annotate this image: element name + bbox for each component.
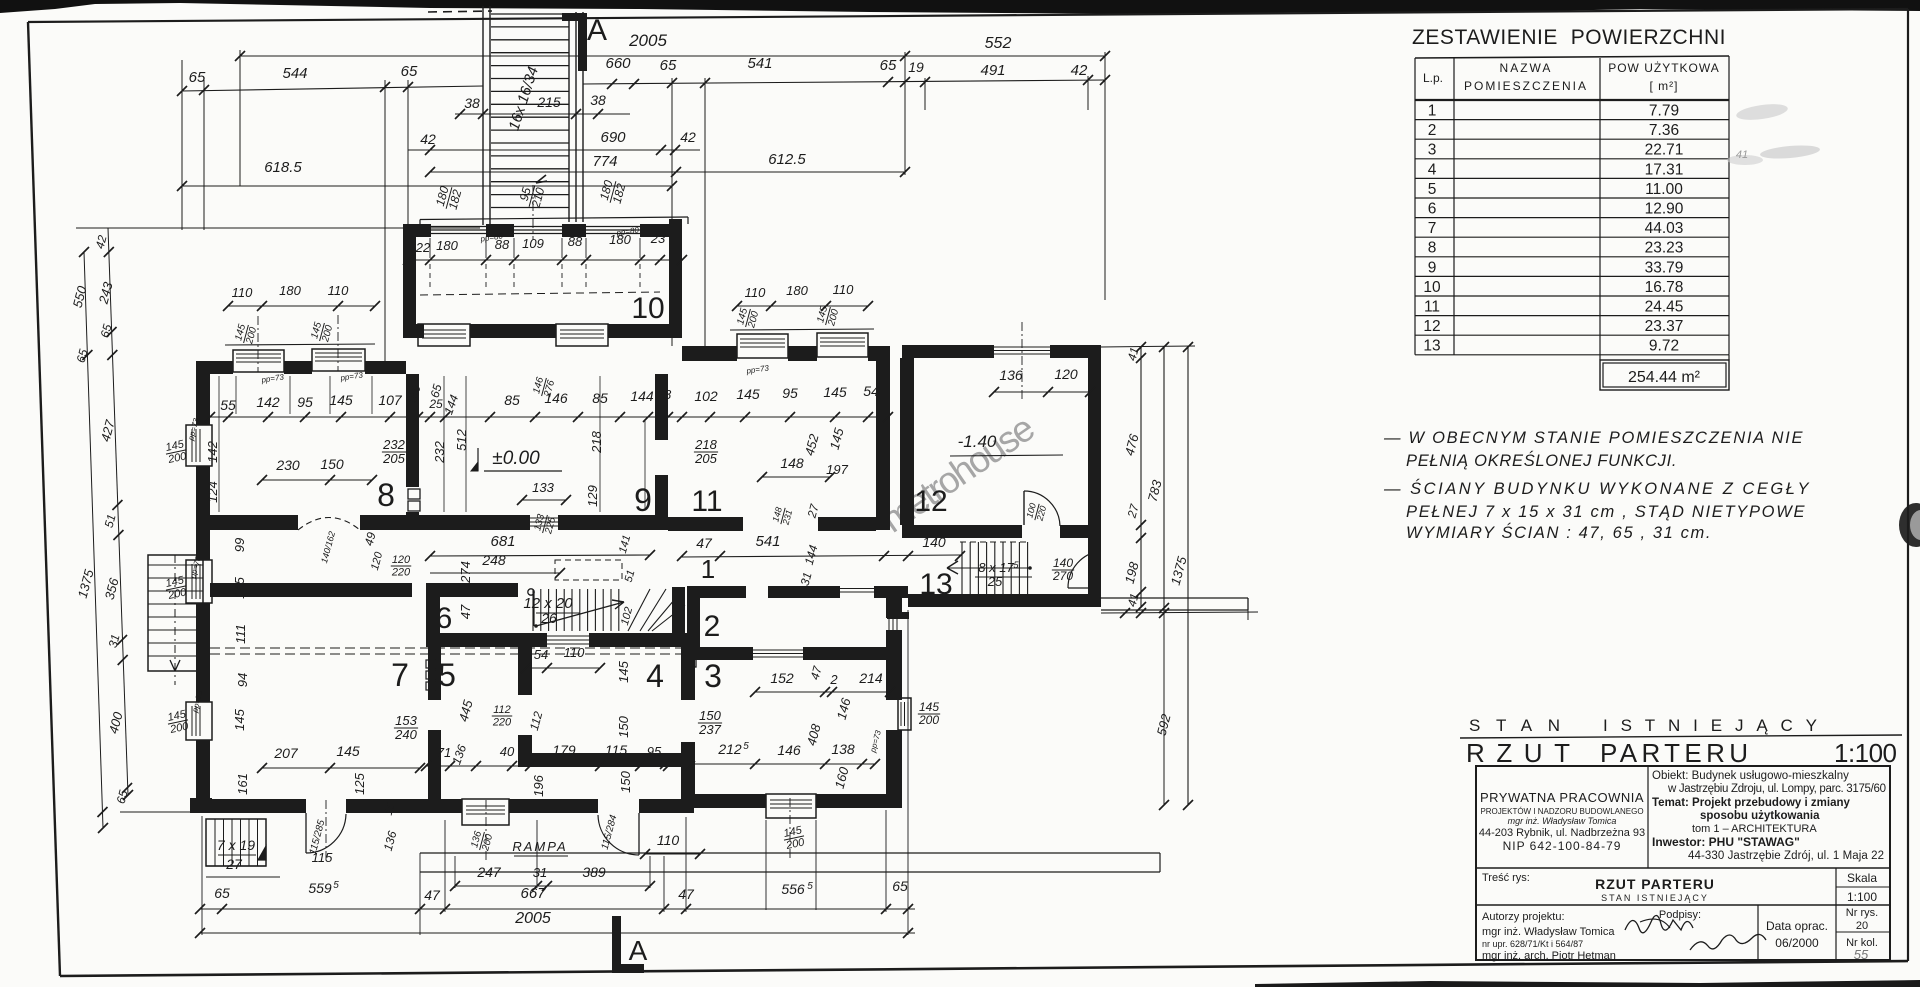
svg-text:95: 95 (782, 385, 798, 401)
top dim chain 2005-552 (240, 55, 1105, 57)
left wall window labels (163, 438, 188, 466)
svg-text:94: 94 (235, 673, 250, 687)
room 10 window dims 180-182 (433, 184, 465, 213)
svg-text:7 x 19: 7 x 19 (217, 837, 255, 853)
dashed rect corridor (555, 560, 622, 580)
svg-text:— ŚCIANY BUDYNKU WYKONANE Z CE: — ŚCIANY BUDYNKU WYKONANE Z CEGŁY (1383, 479, 1810, 498)
svg-text:RAMPA: RAMPA (512, 839, 567, 854)
room 8 dims (382, 437, 406, 466)
svg-text:4: 4 (1428, 161, 1437, 178)
svg-text:1:100: 1:100 (1834, 738, 1897, 768)
room 10 bottom bay window left (418, 324, 470, 346)
room 4 bottom wall (518, 753, 687, 767)
svg-text:145: 145 (736, 386, 760, 402)
svg-text:47: 47 (458, 604, 473, 619)
svg-text:115: 115 (605, 742, 628, 758)
room 10 left wall (403, 226, 416, 338)
room 12 right wall (1088, 345, 1101, 607)
svg-text:42: 42 (420, 131, 436, 147)
svg-text:23: 23 (650, 231, 666, 246)
svg-text:STAN ISTNIEJĄCY: STAN ISTNIEJĄCY (1601, 893, 1709, 903)
page frame border (28, 9, 1908, 22)
room 7 wall small squares (426, 660, 435, 668)
svg-text:11: 11 (1424, 299, 1440, 316)
svg-text:44.03: 44.03 (1645, 220, 1684, 237)
svg-text:Podpisy:: Podpisy: (1659, 909, 1701, 921)
svg-text:541: 541 (755, 533, 780, 550)
dashed stair landing corridor (960, 541, 1028, 543)
svg-text:142: 142 (256, 394, 280, 410)
room 12 top wall (902, 345, 994, 358)
svg-text:5: 5 (1428, 181, 1437, 198)
svg-text:150: 150 (320, 456, 344, 472)
svg-text:9.72: 9.72 (1649, 338, 1679, 355)
svg-text:nr upr. 628/71/Kt i 564/87: nr upr. 628/71/Kt i 564/87 (1482, 939, 1583, 949)
svg-text:3: 3 (1428, 142, 1437, 159)
svg-text:102: 102 (694, 388, 718, 404)
svg-text:16.78: 16.78 (1645, 279, 1684, 296)
svg-text:47: 47 (424, 887, 441, 903)
svg-text:559: 559 (308, 880, 332, 896)
svg-text:111: 111 (233, 624, 248, 644)
svg-text:mgr inż. arch. Piotr Hetman: mgr inż. arch. Piotr Hetman (1482, 950, 1616, 962)
room 10 bottom wall segments (416, 324, 424, 338)
rooms 2-3 right wall (886, 586, 902, 618)
svg-text:PEŁNIĄ OKREŚLONEJ FUNKCJI.: PEŁNIĄ OKREŚLONEJ FUNKCJI. (1406, 451, 1678, 470)
svg-text:774: 774 (592, 153, 617, 170)
room 13 door arc right (1088, 550, 1123, 552)
svg-text:65: 65 (892, 878, 908, 894)
svg-text:180: 180 (436, 238, 458, 253)
svg-text:65: 65 (401, 63, 418, 80)
svg-text:71: 71 (437, 745, 451, 760)
svg-text:10: 10 (631, 292, 664, 325)
svg-text:240: 240 (394, 727, 417, 742)
svg-text:205: 205 (382, 451, 405, 466)
svg-text:PEŁNEJ 7 x 15 x 31 cm , STĄD N: PEŁNEJ 7 x 15 x 31 cm , STĄD NIETYPOWE (1406, 503, 1806, 521)
room 10 outer sill line (420, 217, 688, 220)
svg-text:25: 25 (987, 574, 1003, 589)
wall between rooms 4 and 3 (681, 647, 695, 700)
svg-text:RZUT PARTERU: RZUT PARTERU (1595, 876, 1715, 892)
left wall bay window 1 (186, 425, 212, 466)
svg-text:65: 65 (189, 69, 206, 86)
svg-text:270: 270 (1052, 569, 1073, 583)
area table grid (1415, 56, 1729, 58)
svg-text:110: 110 (328, 283, 349, 298)
svg-text:690: 690 (600, 129, 626, 146)
svg-text:ZESTAWIENIE POWIERZCHNI: ZESTAWIENIE POWIERZCHNI (1412, 26, 1730, 49)
svg-text:L.p.: L.p. (1423, 71, 1443, 85)
wall between rooms 5 and 4 (518, 647, 532, 695)
svg-text:215: 215 (536, 94, 561, 110)
table sum row box (1600, 360, 1729, 390)
left wing top wall piers (196, 361, 233, 374)
svg-text:28: 28 (656, 387, 672, 402)
wall between rooms 7 and 5 (428, 647, 441, 700)
room 11 top bay window D (817, 333, 868, 357)
corridor bottom wall left (210, 583, 412, 597)
svg-text:110: 110 (745, 285, 766, 300)
svg-text:232: 232 (382, 437, 405, 452)
svg-text:27: 27 (225, 856, 243, 872)
stair width chain 38-215-38 (455, 113, 630, 115)
left bottom witness (147, 590, 149, 671)
svg-text:136: 136 (999, 367, 1023, 383)
svg-text:40: 40 (500, 744, 515, 759)
room 3 right window bay (898, 698, 911, 730)
svg-text:2: 2 (829, 672, 838, 687)
room 12 top wall square mark (910, 349, 918, 357)
room 6 left wall (426, 597, 440, 647)
svg-text:38: 38 (464, 95, 480, 111)
room 8 witness verticals (235, 376, 237, 414)
room 10 witness verticals (429, 238, 431, 258)
svg-text:491: 491 (980, 62, 1005, 79)
svg-text:8: 8 (377, 477, 395, 513)
svg-text:110: 110 (232, 285, 253, 300)
room 13 stairs arrow (947, 561, 958, 574)
svg-text:144: 144 (630, 388, 654, 404)
svg-text:179: 179 (552, 742, 576, 758)
left columns dims (84, 252, 103, 828)
left wing top bay window A (233, 350, 284, 372)
dashed line room 10 (420, 292, 660, 295)
ramp outline (420, 852, 1160, 854)
svg-text:23.23: 23.23 (1645, 240, 1684, 257)
top dim chain second row (182, 86, 483, 91)
room 7 bottom chain (262, 767, 420, 769)
svg-text:552: 552 (985, 35, 1012, 52)
svg-text:38: 38 (590, 92, 606, 108)
svg-text:sposobu użytkowania: sposobu użytkowania (1700, 810, 1820, 822)
bottom witness verticals (201, 816, 203, 935)
svg-text:99: 99 (232, 538, 247, 552)
section marker A top (562, 13, 586, 21)
svg-text:5: 5 (743, 741, 749, 752)
svg-text:— W OBECNYM STANIE POMIESZCZEN: — W OBECNYM STANIE POMIESZCZENIA NIE (1383, 429, 1804, 447)
svg-text:153: 153 (395, 713, 417, 728)
top stair arrow (536, 175, 547, 183)
svg-text:65: 65 (214, 885, 230, 901)
svg-text:12: 12 (1423, 318, 1440, 335)
chain 618.5 (182, 185, 672, 187)
svg-text:200: 200 (918, 713, 939, 727)
room 11 top bay window C (737, 334, 788, 358)
svg-text:Autorzy projektu:: Autorzy projektu: (1482, 911, 1565, 923)
svg-text:218: 218 (694, 437, 717, 452)
svg-text:145: 145 (329, 392, 353, 408)
svg-text:220: 220 (492, 716, 512, 728)
room 10 bottom bay window right (556, 324, 608, 346)
top stair treads (491, 13, 569, 15)
room 12 dims (994, 391, 1090, 393)
svg-text:112: 112 (493, 704, 511, 716)
room 10 right wall (669, 219, 682, 338)
frame top dashed section mark (428, 11, 492, 12)
svg-text:237: 237 (698, 722, 721, 737)
wall between rooms 8 and 9 (406, 374, 419, 487)
bottom door arc right (638, 813, 640, 855)
svg-text:7.36: 7.36 (1649, 122, 1679, 139)
svg-text:254.44 m²: 254.44 m² (1628, 369, 1701, 386)
bottom bay window left (462, 799, 509, 825)
svg-text:274: 274 (458, 561, 473, 584)
bottom door arc left (305, 813, 307, 853)
svg-text:161: 161 (235, 773, 250, 795)
svg-text:47: 47 (678, 886, 695, 902)
bottom outer wall segments (202, 799, 306, 813)
svg-text:197: 197 (826, 462, 848, 477)
room 10 top wall piers (403, 224, 431, 237)
title block box (1476, 766, 1890, 960)
svg-text:Nr rys.: Nr rys. (1846, 907, 1878, 919)
room 3 bottom bay window (766, 794, 816, 818)
room 3 window slot (888, 619, 890, 631)
svg-text:220: 220 (391, 566, 411, 578)
room 8 dashed opening arc (298, 518, 360, 531)
scan black band bottom right (1255, 980, 1920, 987)
svg-text:-1.40: -1.40 (958, 432, 997, 451)
svg-text:512: 512 (454, 428, 469, 450)
svg-text:660: 660 (605, 55, 631, 72)
svg-text:12: 12 (914, 485, 947, 518)
svg-text:247: 247 (476, 864, 502, 880)
rooms 5-4 dims (526, 667, 600, 669)
svg-text:POW UŻYTKOWA: POW UŻYTKOWA (1608, 61, 1720, 75)
bottom chains (455, 885, 650, 887)
svg-text:180: 180 (786, 283, 808, 298)
svg-text:NIP 642-100-84-79: NIP 642-100-84-79 (1503, 839, 1622, 853)
svg-text:Temat: Projekt przebudowy i z: Temat: Projekt przebudowy i zmiany (1652, 797, 1850, 809)
svg-text:145: 145 (919, 700, 939, 714)
svg-text:124: 124 (205, 481, 220, 503)
room 3 dims (698, 708, 722, 737)
svg-text:65: 65 (660, 57, 677, 74)
left outer wall segments (196, 374, 210, 425)
svg-text:12.90: 12.90 (1645, 201, 1684, 218)
svg-text:22: 22 (415, 240, 431, 255)
witness line left top (76, 227, 480, 229)
stair 12x20 rail and arrow (528, 589, 534, 595)
room 11 right wall (876, 361, 890, 530)
left wing top sill line (225, 344, 375, 345)
room 13 bottom wall (908, 594, 1101, 607)
svg-text:20: 20 (1856, 920, 1868, 932)
main interior chain y417 (210, 416, 888, 418)
svg-text:8: 8 (1428, 240, 1437, 257)
chain 42-690-42 (408, 149, 700, 151)
svg-text:5: 5 (807, 881, 813, 892)
svg-text:207: 207 (273, 745, 299, 761)
svg-text:13: 13 (919, 568, 952, 601)
room 11 top sill line (730, 329, 874, 330)
svg-text:55: 55 (220, 397, 236, 413)
right witness lines (1101, 346, 1195, 347)
svg-text:54: 54 (534, 647, 548, 662)
room 4 corner square mark (686, 656, 696, 667)
svg-text:248: 248 (481, 552, 506, 568)
svg-text:8 x 17: 8 x 17 (978, 560, 1014, 575)
svg-text:42: 42 (1071, 62, 1088, 79)
room 2 bottom window thin lines (753, 649, 803, 651)
svg-text:85: 85 (504, 392, 520, 408)
top verticals (239, 50, 241, 186)
svg-text:9: 9 (1428, 259, 1437, 276)
room 6 and stair bottom wall - room 4 top (426, 633, 547, 647)
svg-text:556: 556 (781, 881, 805, 897)
svg-text:120: 120 (392, 554, 411, 566)
room 4 top window thin lines (547, 635, 589, 637)
right wing bottom wall thin extension (1101, 597, 1248, 599)
svg-text:95: 95 (647, 744, 662, 759)
room 11 dims (694, 437, 718, 466)
svg-text:232: 232 (432, 440, 447, 463)
svg-text:A: A (587, 14, 607, 47)
top stair shaft walls (482, 6, 484, 225)
svg-text:133: 133 (532, 480, 554, 495)
svg-text:24.45: 24.45 (1645, 299, 1684, 316)
room 9 bottom window thin lines (530, 517, 558, 519)
svg-text:mgr inż. Władysław Tomica: mgr inż. Władysław Tomica (1482, 926, 1615, 938)
svg-text:41: 41 (1736, 149, 1748, 161)
room 13 stairs treads (961, 542, 963, 594)
svg-text:612.5: 612.5 (768, 151, 806, 168)
left wing bay dims 110-180-110 (228, 305, 375, 307)
chain 774-612.5 (430, 171, 905, 173)
svg-text:33.79: 33.79 (1645, 259, 1684, 276)
exterior stair left (148, 555, 203, 671)
svg-text:145: 145 (336, 743, 360, 759)
svg-text:389: 389 (582, 864, 606, 880)
svg-text:tom 1 – ARCHITEKTURA: tom 1 – ARCHITEKTURA (1692, 823, 1817, 835)
left wing top bay window B (312, 349, 365, 371)
svg-text:PROJEKTÓW I NADZORU BUDOWLANEG: PROJEKTÓW I NADZORU BUDOWLANEGO (1480, 807, 1643, 816)
room 2 top window thin lines (840, 588, 874, 590)
svg-text:9: 9 (634, 482, 652, 518)
svg-text:19: 19 (908, 59, 924, 75)
svg-text:196: 196 (531, 774, 546, 796)
svg-text:142: 142 (205, 440, 220, 462)
svg-text:145: 145 (823, 384, 847, 400)
svg-text:138: 138 (831, 741, 855, 757)
svg-text:31: 31 (533, 865, 547, 880)
room 10 top windows (431, 226, 486, 228)
svg-text:1: 1 (1428, 103, 1437, 120)
svg-text:107: 107 (378, 392, 403, 408)
room 3 bottom wall (694, 794, 766, 808)
svg-text:Data oprac.: Data oprac. (1766, 919, 1828, 933)
svg-text:13: 13 (1423, 338, 1440, 355)
room 12 door arc (1023, 491, 1025, 525)
svg-text:Obiekt: Budynek usługowo-mies: Obiekt: Budynek usługowo-mieszkalny (1652, 770, 1849, 782)
svg-text:212: 212 (717, 741, 742, 757)
svg-text:7.79: 7.79 (1649, 103, 1679, 120)
left wall bay window 3 (186, 702, 212, 740)
svg-text:544: 544 (282, 65, 307, 82)
svg-text:55: 55 (1854, 947, 1869, 962)
svg-text:POMIESZCZENIA: POMIESZCZENIA (1464, 79, 1588, 93)
room 12 top window (994, 346, 1050, 348)
corridor top wall - room 9 bottom (419, 515, 530, 530)
svg-text:06/2000: 06/2000 (1775, 936, 1819, 950)
svg-text:95: 95 (297, 394, 313, 410)
svg-text:129: 129 (585, 485, 600, 507)
wall between rooms 2 and 3 (694, 647, 753, 660)
scan smudges near table (1735, 101, 1788, 122)
svg-text:±0.00: ±0.00 (492, 448, 540, 469)
rooms bottom chain y766 (426, 765, 690, 767)
svg-text:11.00: 11.00 (1645, 181, 1683, 198)
svg-text:42: 42 (680, 129, 696, 145)
svg-text:7: 7 (391, 657, 409, 693)
svg-text:230: 230 (275, 457, 300, 473)
svg-text:PRYWATNA PRACOWNIA: PRYWATNA PRACOWNIA (1480, 790, 1644, 805)
svg-text:541: 541 (747, 55, 772, 72)
svg-text:145: 145 (232, 576, 247, 598)
svg-text:Treść rys:: Treść rys: (1482, 872, 1530, 884)
svg-text:2005: 2005 (514, 910, 551, 927)
scan black band top edge (0, 0, 1920, 14)
svg-text:145: 145 (232, 708, 247, 730)
svg-text:5: 5 (333, 880, 339, 891)
svg-text:110: 110 (657, 832, 680, 848)
svg-text:44-330 Jastrzębie Zdrój, ul. 1: 44-330 Jastrzębie Zdrój, ul. 1 Maja 22 (1688, 850, 1884, 862)
svg-text:26: 26 (540, 610, 557, 626)
svg-text:7: 7 (1428, 220, 1437, 237)
svg-text:180: 180 (609, 232, 631, 247)
svg-text:120: 120 (1054, 366, 1078, 382)
svg-text:148: 148 (780, 455, 804, 471)
svg-text:17.31: 17.31 (1645, 161, 1684, 178)
svg-text:3: 3 (704, 658, 722, 694)
svg-text:110: 110 (833, 282, 854, 297)
svg-text:10: 10 (1423, 279, 1441, 296)
svg-text:180: 180 (279, 283, 301, 298)
svg-text:6: 6 (1428, 201, 1437, 218)
svg-text:w Jastrzębiu Zdroju, ul. Lompy: w Jastrzębiu Zdroju, ul. Lompy, parc. 31… (1667, 783, 1886, 795)
wall between rooms 9 and 11 (655, 374, 668, 440)
room 10 interior chain (408, 259, 682, 261)
svg-text:4: 4 (646, 658, 664, 694)
svg-text:115: 115 (312, 850, 333, 865)
binder hole shadow right edge (1899, 503, 1920, 547)
dash-dot centerlines windows (485, 800, 487, 860)
svg-text:mgr inż. Władysław Tomica: mgr inż. Władysław Tomica (1508, 816, 1617, 826)
corridor bottom wall right - room 2 top (687, 586, 746, 598)
bottom left corner block (190, 798, 212, 813)
svg-text:140: 140 (922, 534, 946, 550)
svg-text:Skala: Skala (1847, 871, 1877, 885)
room 12 left wall (900, 358, 914, 525)
svg-text:5: 5 (438, 657, 456, 693)
svg-text:88: 88 (568, 234, 583, 249)
svg-text:[ m²]: [ m²] (1650, 79, 1679, 93)
room 11 top wall piers (682, 346, 737, 361)
svg-text:146: 146 (777, 742, 801, 758)
svg-text:1:100: 1:100 (1847, 890, 1877, 904)
svg-text:11: 11 (691, 485, 722, 518)
svg-text:152: 152 (770, 670, 794, 686)
svg-text:23.37: 23.37 (1645, 318, 1684, 335)
svg-text:150: 150 (616, 715, 631, 737)
svg-text:2: 2 (704, 610, 721, 643)
svg-text:145: 145 (616, 660, 631, 682)
svg-text:1: 1 (701, 554, 715, 584)
svg-text:110: 110 (564, 645, 585, 660)
svg-text:44-203 Rybnik, ul. Nadbrzeżna: 44-203 Rybnik, ul. Nadbrzeżna 93 (1479, 827, 1645, 839)
svg-text:667: 667 (520, 885, 546, 902)
